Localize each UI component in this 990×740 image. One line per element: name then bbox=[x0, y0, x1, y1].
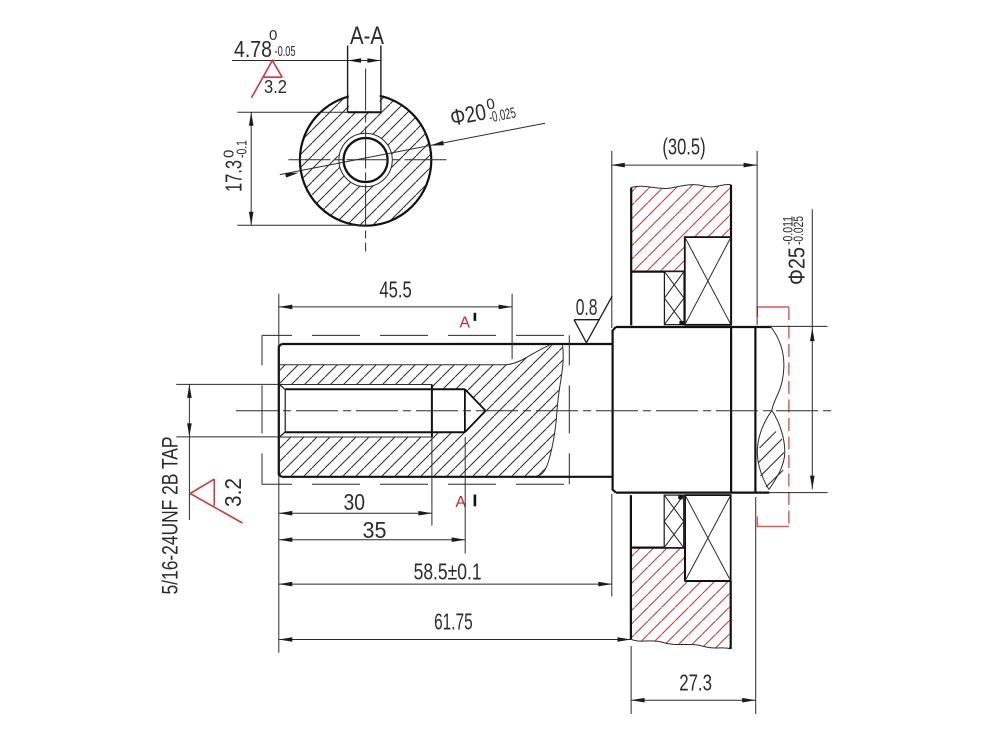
surface finish symbol 0.8 bbox=[574, 296, 612, 343]
tapped hole major diameter lines bbox=[280, 385, 432, 438]
dim phi20 arrows bbox=[285, 173, 299, 178]
housing top right edge bbox=[730, 185, 732, 325]
dim 61.75 arrows bbox=[279, 637, 293, 642]
housing bottom left wall bbox=[630, 495, 632, 639]
dim 30 line bbox=[279, 512, 432, 514]
dim 45.5 arrows bbox=[279, 305, 293, 310]
dim text 17.3 0/-0.1 bbox=[221, 140, 251, 192]
section A-A hatched annulus bbox=[300, 94, 431, 225]
dim 4.78 leader line bbox=[232, 60, 381, 62]
svg-text:3.2: 3.2 bbox=[264, 77, 287, 97]
svg-text:-0.1: -0.1 bbox=[234, 140, 251, 158]
dim 30.5 line bbox=[611, 164, 757, 166]
dim text phi25 -0.011/-0.025 bbox=[781, 216, 810, 285]
dim 30 extension bbox=[431, 437, 433, 526]
shaft left face bbox=[279, 344, 282, 477]
dim phi25 arrows bbox=[810, 328, 815, 342]
main horizontal centerline bbox=[236, 410, 832, 412]
oil seal bottom (crosshatch) bbox=[664, 495, 684, 547]
section A-A shaft outer circle bbox=[300, 94, 431, 225]
dim phi20 leader line bbox=[280, 123, 545, 174]
dim thread extensions bbox=[176, 384, 278, 437]
svg-text:45.5: 45.5 bbox=[379, 277, 411, 303]
housing bottom break wavy line bbox=[631, 639, 731, 649]
lens hatch lines bbox=[758, 432, 784, 488]
dim 35 extension bbox=[464, 437, 466, 554]
svg-text:(30.5): (30.5) bbox=[662, 133, 705, 159]
disk bottom edge bbox=[616, 492, 770, 494]
surface finish symbol 3.2 (thread) bbox=[190, 479, 242, 523]
shaft break lens right arc bbox=[769, 410, 785, 489]
keyway bottom line bbox=[280, 364, 505, 366]
svg-text:35: 35 bbox=[363, 517, 387, 543]
dim 58.5 extension right bbox=[611, 494, 613, 597]
dim 17.3 extension lines bbox=[237, 112, 366, 225]
bearing bottom (box with cross) bbox=[685, 495, 731, 581]
svg-text:5/16-24UNF 2B TAP: 5/16-24UNF 2B TAP bbox=[158, 437, 183, 595]
svg-text:61.75: 61.75 bbox=[434, 608, 473, 634]
tapped hole thread major circle bbox=[339, 133, 392, 186]
tapped hole minor circle bbox=[344, 138, 388, 182]
break line S-curve bbox=[537, 345, 564, 476]
dim 4.78 arrows bbox=[348, 58, 362, 63]
bearing seat shoulder line bbox=[730, 327, 732, 493]
housing top seal pocket face bbox=[631, 271, 684, 273]
svg-text:-0.05: -0.05 bbox=[275, 43, 296, 60]
dim 30 arrows bbox=[279, 511, 293, 516]
keyway slot bottom flat bbox=[348, 111, 381, 113]
svg-text:A-A: A-A bbox=[350, 22, 384, 50]
dim 45.5 extension right bbox=[511, 294, 513, 359]
dim thread line bbox=[188, 384, 190, 520]
svg-text:-0.025: -0.025 bbox=[791, 216, 806, 245]
dim 35 arrows bbox=[279, 537, 293, 542]
disk right face line bbox=[754, 327, 756, 493]
dim 27.3 line bbox=[631, 699, 756, 701]
shaft break curve upper bbox=[771, 327, 784, 410]
dim phi25 extensions bbox=[768, 326, 828, 492]
housing top break wavy line bbox=[631, 184, 731, 188]
keyway runout curve bbox=[505, 345, 550, 365]
shaft left extension line bbox=[278, 294, 280, 653]
dim text phi20 0/-0.025 bbox=[448, 92, 518, 134]
dim 27.3 extensions bbox=[631, 497, 756, 714]
svg-text:Φ25: Φ25 bbox=[784, 247, 810, 285]
dim 35 line bbox=[279, 539, 465, 541]
svg-text:27.3: 27.3 bbox=[679, 670, 712, 696]
oil seal top (crosshatch) bbox=[664, 272, 684, 325]
thread callout 5/16-24UNF 2B TAP bbox=[158, 437, 183, 595]
hole entrance chamfer bbox=[280, 385, 285, 437]
circle horizontal centerline bbox=[289, 159, 449, 161]
svg-text:A: A bbox=[460, 315, 471, 332]
dim 45.5 line bbox=[279, 306, 512, 308]
housing bottom pocket step bbox=[685, 548, 731, 649]
dim 61.75 line bbox=[279, 639, 631, 641]
bearing top (box with cross) bbox=[685, 237, 731, 325]
dim 58.5 line bbox=[279, 583, 612, 585]
dim 58.5 arrows bbox=[279, 582, 293, 587]
dim 30.5 arrows bbox=[611, 163, 625, 168]
dim phi25 line bbox=[811, 209, 813, 489]
svg-text:30: 30 bbox=[344, 489, 366, 515]
svg-text:58.5±0.1: 58.5±0.1 bbox=[414, 558, 482, 584]
housing bottom red hatch bbox=[631, 548, 731, 649]
tapped hole minor diameter lines bbox=[285, 389, 465, 432]
svg-text:A: A bbox=[456, 494, 467, 511]
section cut tick bottom bbox=[474, 495, 477, 507]
svg-text:0.8: 0.8 bbox=[576, 294, 598, 320]
main section hatch (broken-out section) bbox=[280, 345, 563, 476]
svg-text:17.3: 17.3 bbox=[221, 160, 247, 192]
oil seal top lip bbox=[679, 321, 684, 325]
housing top red hatch bbox=[631, 184, 731, 271]
keyway slot void mask bbox=[349, 84, 380, 111]
keyway slot side lines bbox=[348, 46, 381, 113]
disk top edge bbox=[616, 326, 771, 328]
housing top left wall bbox=[630, 188, 632, 326]
svg-text:4.78: 4.78 bbox=[234, 36, 272, 62]
drill cone bbox=[465, 389, 486, 432]
section cut tick top bbox=[474, 313, 477, 321]
dim 17.3 line bbox=[250, 112, 252, 225]
disk left face (shoulder) bbox=[613, 327, 616, 493]
shaft top edge bbox=[282, 343, 613, 345]
oil seal bottom lip bbox=[678, 495, 683, 499]
dim 27.3 arrows bbox=[631, 698, 645, 703]
circle vertical centerline bbox=[365, 69, 367, 252]
housing bottom seal pocket face bbox=[631, 546, 685, 548]
phantom shaft continuation (red bracket) bbox=[757, 307, 789, 527]
surface finish symbol 3.2 (keyway) bbox=[251, 61, 282, 98]
svg-text:3.2: 3.2 bbox=[220, 478, 246, 507]
dim 30.5 extensions bbox=[612, 151, 757, 328]
shaft break lens left arc bbox=[757, 410, 772, 489]
surface finish text 3.2 (thread) bbox=[220, 478, 246, 507]
shaft bottom edge bbox=[282, 476, 613, 478]
svg-text:0: 0 bbox=[269, 27, 277, 44]
thread end line bbox=[431, 385, 433, 438]
dim thread arrows bbox=[187, 384, 192, 398]
phantom outline (mating hub, dashed rect) bbox=[262, 335, 569, 484]
dim 17.3 arrows bbox=[249, 112, 254, 126]
